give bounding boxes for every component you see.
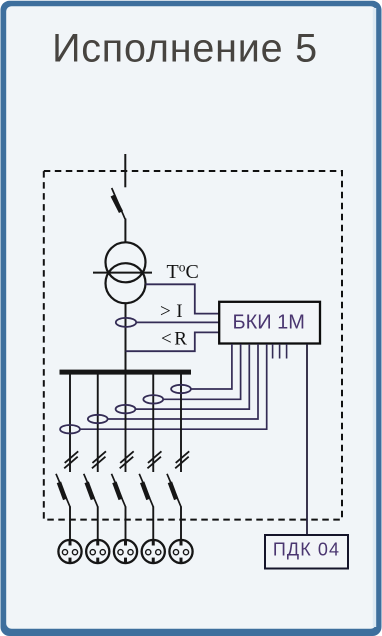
current sensor ellipse line 2 bbox=[88, 415, 108, 423]
wire: transformer to busbar bbox=[125, 303, 127, 370]
switch line 4 bbox=[139, 474, 153, 541]
switch line 1 bbox=[56, 474, 70, 541]
cable marks line 5 bbox=[175, 451, 189, 468]
feeder line 3 bbox=[125, 374, 127, 472]
busbar bbox=[60, 370, 192, 375]
wire: БКИ pin to sensor line 4 bbox=[163, 344, 240, 399]
cable marks line 1 bbox=[64, 451, 78, 468]
БКИ stub pin 1 bbox=[272, 344, 274, 359]
switch QF main blade bbox=[112, 188, 125, 219]
block БКИ 1М bbox=[219, 302, 320, 344]
socket XS2 bbox=[86, 540, 109, 563]
feeder line 4 bbox=[152, 374, 154, 472]
svg-text:Исполнение 5: Исполнение 5 bbox=[52, 27, 318, 71]
socket XS1 bbox=[58, 540, 81, 563]
wire: incoming supply line bbox=[124, 154, 126, 187]
wire: БКИ to ПДК 04 bbox=[306, 344, 308, 535]
cable marks line 3 bbox=[120, 451, 134, 468]
wire: switch to transformer bbox=[124, 219, 126, 244]
current sensor ellipse line 1 bbox=[60, 425, 80, 433]
БКИ stub pin 2 bbox=[279, 344, 281, 359]
feeder line 1 bbox=[69, 374, 71, 472]
switch line 3 bbox=[112, 474, 126, 541]
current sensor ellipse line 4 bbox=[143, 395, 163, 403]
wire: БКИ pin to sensor line 5 bbox=[191, 344, 232, 389]
current sensor ellipse line 5 bbox=[171, 385, 191, 393]
cable marks line 2 bbox=[92, 451, 106, 468]
current sensor ellipse on main line bbox=[116, 318, 136, 327]
wire: ТоС sensor wire to БКИ bbox=[146, 284, 220, 313]
wire: БКИ pin to sensor line 2 bbox=[108, 344, 258, 419]
feeder line 2 bbox=[97, 374, 99, 472]
wire: >I sensor wire to БКИ bbox=[136, 321, 219, 323]
transformer T1 bbox=[93, 242, 152, 303]
feeder line 5 bbox=[180, 374, 182, 472]
wire: БКИ pin to sensor line 3 bbox=[136, 344, 250, 409]
current sensor ellipse line 3 bbox=[116, 405, 136, 413]
switch line 2 bbox=[84, 474, 98, 541]
dashed enclosure boundary bbox=[44, 171, 342, 520]
svg-text:БКИ 1М: БКИ 1М bbox=[232, 312, 305, 334]
wire: БКИ pin to sensor line 1 bbox=[80, 344, 267, 429]
socket XS3 bbox=[114, 540, 137, 563]
switch line 5 bbox=[167, 474, 181, 541]
wire: <R sensor wire to БКИ bbox=[126, 332, 220, 351]
cable marks line 4 bbox=[147, 451, 161, 468]
svg-text:ПДК 04: ПДК 04 bbox=[273, 540, 340, 560]
socket XS4 bbox=[142, 540, 165, 563]
svg-text:<R: <R bbox=[161, 329, 187, 350]
block ПДК 04 bbox=[265, 535, 348, 569]
socket XS5 bbox=[169, 540, 192, 563]
БКИ stub pin 3 bbox=[286, 344, 288, 359]
